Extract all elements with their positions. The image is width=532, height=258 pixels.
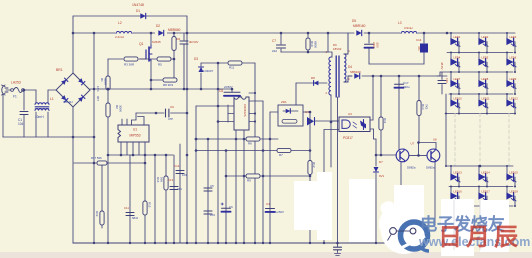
wire <box>249 100 263 102</box>
wire <box>48 89 56 91</box>
svg-text:9V1: 9V1 <box>379 174 385 178</box>
feedback wire <box>74 162 145 164</box>
svg-text:LED12: LED12 <box>510 97 519 101</box>
LED LED9 <box>506 72 508 84</box>
diode D4 <box>354 73 359 78</box>
LED LED14 <box>478 166 480 177</box>
capacitor C17 <box>398 76 400 150</box>
node <box>195 242 197 244</box>
svg-text:D882a: D882a <box>407 166 416 170</box>
svg-text:GBU4J: GBU4J <box>63 100 73 104</box>
svg-text:22/50V: 22/50V <box>224 85 233 89</box>
svg-text:LED15: LED15 <box>510 171 519 175</box>
return line <box>90 88 232 90</box>
svg-text:LA253: LA253 <box>11 81 21 85</box>
resistor R1 <box>106 76 110 90</box>
svg-text:D882a: D882a <box>426 166 435 170</box>
series link wire <box>445 94 447 166</box>
svg-text:47P: 47P <box>168 117 173 121</box>
capacitor C1 <box>23 90 25 110</box>
shield ground wire <box>337 97 339 243</box>
svg-text:F1: F1 <box>13 95 17 99</box>
fuse F1 <box>11 89 14 92</box>
wire emitter <box>434 162 436 225</box>
ground rail <box>73 242 398 244</box>
watermark white patch <box>394 185 424 235</box>
output rail <box>362 75 447 77</box>
svg-text:CR6842S: CR6842S <box>243 104 247 117</box>
svg-text:L1: L1 <box>50 97 54 101</box>
top rail <box>73 15 187 17</box>
capacitor C12 <box>176 170 184 172</box>
svg-text:MBR660: MBR660 <box>168 28 181 32</box>
svg-text:LED11: LED11 <box>482 97 491 101</box>
svg-text:7K5: 7K5 <box>425 104 429 110</box>
svg-text:D4: D4 <box>348 65 352 69</box>
svg-text:MIP553: MIP553 <box>130 134 141 138</box>
node <box>107 88 110 91</box>
wire <box>154 155 156 243</box>
wire <box>370 128 374 130</box>
return rail <box>3 136 94 138</box>
wire <box>179 144 181 243</box>
svg-text:LED14: LED14 <box>482 171 491 175</box>
svg-text:LED8: LED8 <box>482 77 489 81</box>
wire <box>207 139 209 243</box>
svg-text:C8: C8 <box>219 89 223 93</box>
svg-text:D2: D2 <box>156 24 160 28</box>
node <box>154 242 156 244</box>
svg-text:680K: 680K <box>314 41 318 48</box>
LED LED13 <box>450 166 452 177</box>
node <box>186 242 188 244</box>
svg-text:LED5: LED5 <box>482 56 489 60</box>
wire <box>196 150 310 152</box>
wire secondary top <box>344 33 348 54</box>
wire <box>315 120 343 122</box>
node <box>150 32 153 35</box>
svg-text:K2645: K2645 <box>152 40 161 44</box>
inductor L3 <box>400 30 418 34</box>
svg-text:471: 471 <box>417 46 421 51</box>
LED LED3 <box>506 33 508 42</box>
svg-text:3.9mH: 3.9mH <box>404 26 413 30</box>
capacitor C10 <box>368 33 370 43</box>
svg-text:U4: U4 <box>305 110 309 114</box>
wire <box>108 58 123 60</box>
svg-text:R2: R2 <box>115 105 119 109</box>
LED bus <box>445 113 515 115</box>
LED LED1 <box>450 33 452 42</box>
node <box>129 242 131 244</box>
svg-text:D8: D8 <box>311 76 315 80</box>
svg-text:R11: R11 <box>229 66 235 70</box>
resistor R9 <box>246 174 260 178</box>
LED bus <box>446 165 513 167</box>
node <box>72 32 75 35</box>
svg-text:R4: R4 <box>177 37 181 41</box>
svg-text:D1: D1 <box>136 9 140 13</box>
LED LED16 <box>450 187 452 197</box>
diode D1 <box>140 13 145 18</box>
LED LED11 <box>478 94 480 103</box>
node <box>243 242 245 244</box>
node <box>173 242 175 244</box>
resistor R6 <box>246 137 260 141</box>
svg-text:103: 103 <box>182 173 187 177</box>
node <box>186 154 189 157</box>
resistor R3 <box>124 57 138 61</box>
transistor Q2 <box>396 149 409 162</box>
LED LED18 <box>506 187 508 197</box>
resistor R13 <box>418 76 420 100</box>
svg-text:LED18: LED18 <box>510 190 519 194</box>
inductor L1 common-mode choke <box>35 90 37 103</box>
capacitor C4 <box>266 208 275 210</box>
svg-text:LED2: LED2 <box>482 35 489 39</box>
resistor R19 <box>100 211 104 225</box>
svg-text:C14: C14 <box>416 38 422 42</box>
wire primary bottom <box>330 95 332 167</box>
svg-text:L3: L3 <box>398 21 402 25</box>
resistor R16 <box>164 176 168 190</box>
resistor R2 <box>106 103 110 117</box>
svg-text:474: 474 <box>177 187 182 191</box>
wire emitter <box>400 162 402 243</box>
wire bridge bottom <box>72 107 74 137</box>
wire <box>107 90 109 103</box>
node <box>186 88 189 91</box>
primary feed <box>327 33 329 52</box>
svg-text:220u: 220u <box>372 42 376 49</box>
node <box>107 242 109 244</box>
svg-text:R14: R14 <box>383 118 387 124</box>
watermark faint columns <box>453 200 455 250</box>
svg-text:Q1: Q1 <box>139 42 144 46</box>
svg-text:R12: R12 <box>312 162 316 168</box>
svg-text:LED4: LED4 <box>454 56 461 60</box>
svg-text:U7: U7 <box>411 142 415 146</box>
node <box>262 242 264 244</box>
inductor L2 <box>115 30 133 34</box>
svg-text:LED7: LED7 <box>454 77 461 81</box>
resistor R15 <box>143 201 147 215</box>
transformer T1 <box>329 57 331 95</box>
svg-text:48.8V: 48.8V <box>440 62 444 70</box>
svg-text:R19: R19 <box>95 211 99 217</box>
svg-text:R7: R7 <box>279 153 283 157</box>
svg-text:684J: 684J <box>132 216 139 220</box>
svg-text:R8 3K9: R8 3K9 <box>163 83 173 87</box>
svg-text:LED9: LED9 <box>510 77 517 81</box>
capacitor C5 <box>204 187 212 189</box>
svg-text:103: 103 <box>210 213 215 217</box>
svg-text:R16: R16 <box>156 177 160 183</box>
wire vcc line <box>217 63 219 243</box>
node <box>309 242 311 244</box>
resistor R5 <box>157 57 171 61</box>
node <box>235 242 237 244</box>
watermark white patch <box>441 199 474 256</box>
capacitor C11 <box>126 212 134 214</box>
svg-text:R17 56K: R17 56K <box>91 156 102 160</box>
svg-text:C5: C5 <box>210 184 214 188</box>
capacitor C14 <box>423 33 425 43</box>
node <box>150 88 153 91</box>
wire <box>369 63 424 65</box>
node <box>309 120 312 123</box>
svg-text:220u: 220u <box>403 85 410 89</box>
wire <box>173 155 175 243</box>
Y-capacitor CY to earth <box>337 243 339 247</box>
wire <box>139 58 146 60</box>
wire secondary bottom <box>344 76 352 82</box>
LED LED8 <box>478 72 480 84</box>
node <box>173 32 176 35</box>
wire <box>144 155 146 243</box>
diode D3 <box>200 63 202 66</box>
svg-text:C12: C12 <box>174 164 180 168</box>
svg-text:PC817: PC817 <box>343 136 353 140</box>
svg-text:ZD1: ZD1 <box>281 100 287 104</box>
svg-text:D7: D7 <box>379 160 383 164</box>
capacitor C8 <box>231 89 233 92</box>
node <box>207 242 209 244</box>
LED bus <box>449 205 513 207</box>
capacitor C7 <box>280 33 282 44</box>
rail <box>364 32 515 34</box>
svg-text:R9: R9 <box>247 179 251 183</box>
watermark white patch <box>317 172 332 240</box>
zener box ZD1 <box>278 105 303 126</box>
wire collector <box>370 119 373 121</box>
vertical chain <box>107 59 109 76</box>
LED bus <box>449 186 513 188</box>
svg-text:C9: C9 <box>170 105 174 109</box>
wire <box>101 163 103 211</box>
wire base <box>376 154 397 156</box>
capacitor C9 <box>165 109 167 117</box>
svg-text:222: 222 <box>272 49 277 53</box>
diode D8 <box>314 81 319 86</box>
wire source <box>150 61 152 89</box>
node <box>254 242 256 244</box>
second rail <box>73 32 354 34</box>
svg-text:日月辰: 日月辰 <box>438 224 522 251</box>
svg-text:R10: R10 <box>310 41 314 47</box>
svg-text:LED13: LED13 <box>454 171 463 175</box>
wire ground drop <box>72 137 74 243</box>
watermark white patch <box>480 200 509 252</box>
svg-text:BR1: BR1 <box>56 68 63 72</box>
node <box>186 32 189 35</box>
wire <box>171 58 174 60</box>
wire <box>129 155 131 243</box>
svg-text:C11: C11 <box>124 206 129 210</box>
svg-text:LED10: LED10 <box>454 97 463 101</box>
bus wire <box>108 154 173 156</box>
node <box>375 242 377 244</box>
svg-text:1N4007: 1N4007 <box>203 69 214 73</box>
resistor R7 <box>277 148 291 152</box>
LED LED12 <box>506 94 508 103</box>
long vertical bus <box>186 16 188 243</box>
wire <box>226 175 310 177</box>
svg-text:LED6: LED6 <box>510 56 517 60</box>
wire <box>25 89 37 91</box>
svg-text:007: 007 <box>96 96 100 101</box>
svg-text:4R/10V: 4R/10V <box>189 40 198 44</box>
wire <box>107 117 109 243</box>
optocoupler U3 PC817 <box>339 117 370 132</box>
svg-text:300K: 300K <box>104 78 108 85</box>
LED LED4 <box>450 53 452 63</box>
svg-text:SB5100: SB5100 <box>350 70 361 74</box>
capacitor C16 <box>441 72 443 80</box>
node <box>330 121 333 124</box>
svg-text:U1: U1 <box>133 128 137 132</box>
resistor R12 <box>308 161 312 175</box>
svg-text:1u/50V: 1u/50V <box>275 210 284 214</box>
svg-text:2.2mH: 2.2mH <box>115 35 124 39</box>
wire <box>254 63 256 243</box>
svg-text:/10V: /10V <box>376 42 380 48</box>
LED LED6 <box>506 53 508 63</box>
svg-text:LED17: LED17 <box>482 190 491 194</box>
wire <box>324 129 339 131</box>
node <box>93 162 96 165</box>
svg-text:U3: U3 <box>348 112 352 116</box>
svg-text:R15: R15 <box>148 202 152 208</box>
IC U1 <box>118 125 149 142</box>
resistor R14 <box>380 76 382 117</box>
node <box>144 242 146 244</box>
node <box>217 242 219 244</box>
feedback wire <box>196 138 278 140</box>
AC plug P1 <box>2 85 9 95</box>
svg-text:C16: C16 <box>445 78 449 83</box>
faint column wires <box>454 114 456 167</box>
LED LED17 <box>478 187 480 197</box>
LED LED15 <box>506 166 508 177</box>
resistor R11 <box>228 61 242 65</box>
gate wire <box>140 58 157 60</box>
svg-text:R13: R13 <box>421 104 425 110</box>
svg-text:18V02: 18V02 <box>333 47 342 51</box>
svg-text:L2: L2 <box>118 21 122 25</box>
node <box>225 242 227 244</box>
transistor Q1 <box>148 47 150 61</box>
wire <box>409 154 427 156</box>
IC U2 CR6842 <box>234 97 249 130</box>
bottom scan edge strip <box>0 252 532 258</box>
node <box>269 242 271 244</box>
svg-text:10mH: 10mH <box>35 115 44 119</box>
snubber wire <box>151 79 177 81</box>
LED bus <box>449 93 513 95</box>
wire <box>195 106 197 243</box>
LED LED5 <box>478 53 480 63</box>
wire <box>270 111 278 113</box>
resistor R4 <box>173 33 175 37</box>
watermark white patch <box>294 181 317 230</box>
svg-text:MBR160: MBR160 <box>353 24 366 28</box>
svg-text:R1: R1 <box>100 78 104 82</box>
svg-text:R3 36R: R3 36R <box>124 63 135 67</box>
watermark white circle <box>381 208 427 254</box>
wire <box>303 111 310 113</box>
node <box>165 242 167 244</box>
wire drain <box>150 33 152 45</box>
svg-text:C13: C13 <box>168 178 174 182</box>
svg-text:D5: D5 <box>352 19 356 23</box>
LED LED10 <box>450 94 452 103</box>
svg-text:104: 104 <box>18 122 24 126</box>
svg-text:56K: 56K <box>160 177 164 182</box>
resistor R10 <box>307 33 309 37</box>
svg-text:C7: C7 <box>272 39 276 43</box>
node <box>323 242 325 244</box>
LED bus <box>440 71 513 73</box>
capacitor C13 <box>170 186 178 188</box>
svg-text:LED1: LED1 <box>454 35 461 39</box>
zener D7 <box>375 139 377 166</box>
collector link <box>419 142 436 144</box>
wire <box>331 120 339 122</box>
wire vcc <box>201 62 255 64</box>
svg-text:C4: C4 <box>266 202 270 206</box>
capacitor C6 <box>222 207 231 209</box>
svg-text:R5: R5 <box>158 63 162 67</box>
transistor Q3 <box>427 149 440 162</box>
node <box>93 136 96 139</box>
bridge rectifier BR1 <box>56 73 90 107</box>
svg-text:U8: U8 <box>433 138 437 142</box>
shunt U4 TL431 <box>309 112 311 243</box>
clamp wire <box>281 51 328 53</box>
wire vertical D line <box>93 33 95 243</box>
wire <box>6 89 11 91</box>
svg-text:300K: 300K <box>119 105 123 112</box>
wire bridge top to top rail <box>72 16 74 73</box>
wire <box>165 155 167 243</box>
node <box>93 88 96 91</box>
node <box>93 242 95 244</box>
svg-text:C6: C6 <box>229 205 233 209</box>
LED bus <box>447 52 513 54</box>
svg-text:R6: R6 <box>248 142 252 146</box>
svg-text:1N4748: 1N4748 <box>132 3 144 7</box>
watermark logo ring <box>379 206 415 242</box>
svg-text:LED16: LED16 <box>454 190 463 194</box>
node <box>23 89 26 92</box>
signal wire <box>136 112 164 114</box>
wire <box>225 151 227 244</box>
node <box>186 112 189 115</box>
watermark white patch <box>349 179 375 242</box>
svg-text:LED3: LED3 <box>510 35 517 39</box>
diode D5 <box>356 30 361 35</box>
resistor R17 <box>97 161 107 165</box>
diode D2 <box>155 30 167 36</box>
LED LED2 <box>478 33 480 42</box>
capacitor C2 <box>183 33 185 40</box>
svg-text:D3: D3 <box>194 57 198 61</box>
resistor R8 <box>163 78 177 82</box>
LED LED7 <box>450 72 452 84</box>
aux wire <box>296 82 327 84</box>
